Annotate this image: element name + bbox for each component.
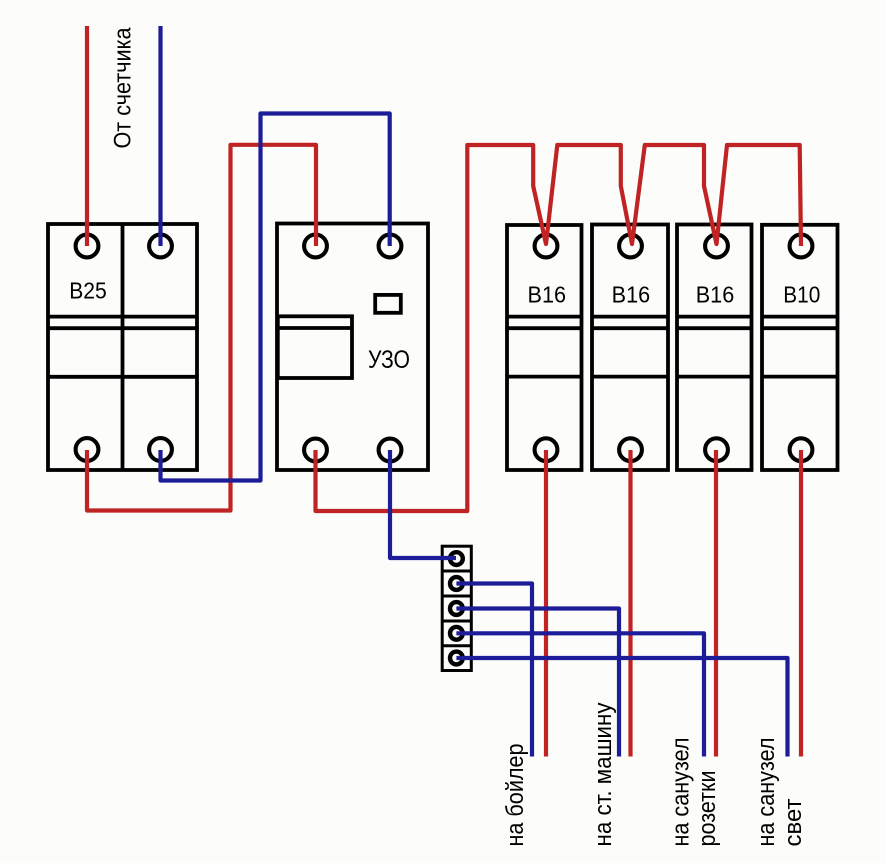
breaker B16 #2 body	[592, 225, 668, 471]
wire: phase out of B16#3 to bathroom sockets (red)	[714, 450, 718, 757]
terminal B25 top-right	[149, 235, 172, 258]
wire: neutral branch to bathroom light (blue)	[456, 658, 787, 757]
breaker B16 #3 body	[677, 225, 752, 471]
neutral bus terminal 3	[450, 602, 463, 615]
svg-text:свет: свет	[780, 799, 807, 847]
svg-text:B16: B16	[696, 282, 735, 308]
breaker B16 #1 body	[507, 225, 582, 470]
svg-text:на санузел: на санузел	[668, 738, 695, 847]
terminal УЗО top-left	[304, 235, 327, 258]
svg-text:на санузел: на санузел	[753, 738, 780, 847]
wire: neutral branch to boiler (blue)	[456, 584, 532, 757]
terminal B10 bottom	[790, 438, 813, 461]
svg-text:От счетчика: От счетчика	[110, 27, 137, 149]
neutral bus terminal 5	[450, 652, 463, 665]
neutral bus terminal 4	[450, 627, 463, 640]
terminal УЗО top-right	[379, 235, 402, 258]
wire: N from B25 bottom-right up to RCD top-right (blue loop)	[161, 114, 390, 481]
wire: L bus from RCD bottom-left feeding all four breakers (red)	[316, 145, 802, 511]
terminal B16#3 top	[705, 235, 728, 258]
wire: N from RCD bottom-right to neutral bus top terminal (blue)	[390, 450, 456, 558]
svg-text:B16: B16	[612, 282, 651, 308]
terminal B16#3 bottom	[705, 438, 728, 461]
wire: phase out of B10 to bathroom light (red)	[799, 450, 803, 757]
wire: phase L feed from meter (red, into B25 top-left terminal)	[85, 26, 89, 246]
terminal B10 top	[790, 235, 813, 258]
svg-text:на бойлер: на бойлер	[502, 744, 529, 847]
breaker B25 body	[48, 224, 197, 470]
terminal B16#2 bottom	[619, 438, 642, 461]
terminal B16#1 top	[535, 235, 558, 258]
terminal B25 bottom-left	[76, 438, 99, 461]
wire: phase out of B16#2 to washing machine (red)	[628, 450, 632, 757]
terminal УЗО bottom-right	[379, 439, 402, 462]
svg-text:розетки: розетки	[694, 771, 721, 847]
wire: phase out of B16#1 to boiler (red)	[544, 450, 548, 757]
terminal B25 bottom-right	[149, 438, 172, 461]
breaker B10 body	[762, 225, 838, 470]
wire: neutral branch to washing machine (blue)	[456, 609, 619, 757]
wire: L from B25 bottom-left up to RCD top-left (red loop)	[87, 145, 316, 511]
RCD УЗО body	[277, 224, 428, 471]
terminal B16#1 bottom	[535, 438, 558, 461]
terminal B25 top-left	[76, 235, 99, 258]
terminal УЗО bottom-left	[304, 439, 327, 462]
wire: neutral branch to bathroom sockets (blue)	[456, 633, 704, 756]
neutral bus terminal 1	[450, 552, 463, 565]
svg-text:УЗО: УЗО	[368, 346, 410, 374]
wire: neutral N feed from meter (blue, into B25 top-right terminal)	[158, 26, 162, 246]
svg-text:B25: B25	[69, 278, 107, 304]
terminal B16#2 top	[619, 235, 642, 258]
neutral bus terminal 2	[450, 577, 463, 590]
svg-text:B16: B16	[528, 282, 567, 308]
svg-text:на ст. машину: на ст. машину	[590, 703, 617, 847]
neutral bus bar body	[442, 546, 471, 670]
svg-text:B10: B10	[783, 282, 820, 308]
